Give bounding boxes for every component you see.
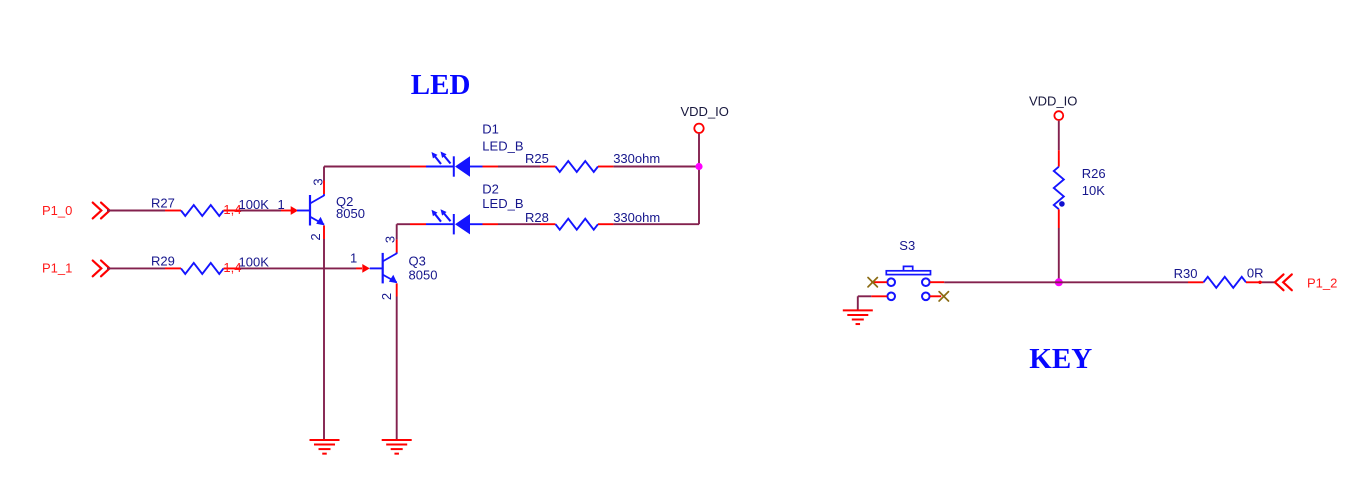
- svg-text:3: 3: [382, 236, 397, 243]
- svg-text:VDD_IO: VDD_IO: [681, 104, 729, 119]
- svg-text:R25: R25: [525, 151, 549, 166]
- svg-text:1: 1: [278, 197, 285, 212]
- svg-text:LED: LED: [411, 69, 471, 101]
- svg-text:P1_1: P1_1: [42, 261, 72, 276]
- svg-text:KEY: KEY: [1029, 343, 1092, 375]
- svg-text:D2: D2: [482, 181, 499, 196]
- svg-text:8050: 8050: [336, 206, 365, 221]
- svg-text:R27: R27: [151, 196, 175, 211]
- svg-text:S3: S3: [899, 238, 915, 253]
- svg-text:1: 1: [350, 251, 357, 266]
- svg-text:2: 2: [379, 293, 394, 300]
- svg-text:R26: R26: [1082, 166, 1106, 181]
- svg-text:330ohm: 330ohm: [613, 210, 660, 225]
- svg-text:8050: 8050: [409, 268, 438, 283]
- svg-text:R29: R29: [151, 253, 175, 268]
- svg-text:R30: R30: [1174, 266, 1198, 281]
- svg-text:LED_B: LED_B: [482, 196, 523, 211]
- svg-text:R28: R28: [525, 210, 549, 225]
- svg-text:Q3: Q3: [409, 254, 426, 269]
- svg-text:10K: 10K: [1082, 183, 1105, 198]
- svg-text:2: 2: [308, 233, 323, 240]
- svg-text:VDD_IO: VDD_IO: [1029, 94, 1077, 109]
- svg-text:D1: D1: [482, 121, 499, 136]
- svg-text:100K: 100K: [239, 254, 270, 269]
- svg-text:0R: 0R: [1247, 265, 1264, 280]
- svg-text:330ohm: 330ohm: [613, 151, 660, 166]
- svg-text:P1_0: P1_0: [42, 203, 72, 218]
- svg-text:P1_2: P1_2: [1307, 275, 1337, 290]
- svg-text:3: 3: [310, 178, 325, 185]
- svg-text:LED_B: LED_B: [482, 138, 523, 153]
